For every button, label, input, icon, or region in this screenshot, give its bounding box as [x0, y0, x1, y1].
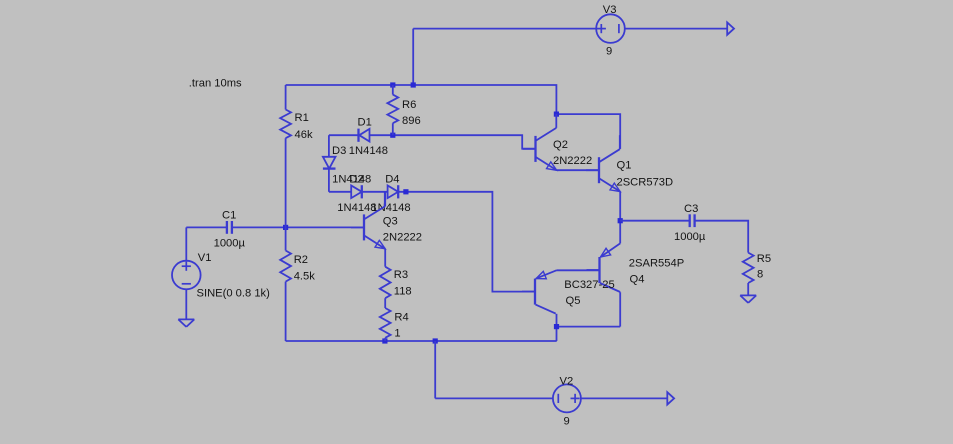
label R2 value 4.5k — [294, 271, 316, 283]
label C3 name — [684, 203, 698, 215]
svg-text:9: 9 — [606, 46, 612, 58]
label D3 name — [332, 145, 346, 157]
svg-text:1000µ: 1000µ — [214, 238, 246, 250]
svg-text:9: 9 — [564, 416, 570, 428]
svg-text:2N2222: 2N2222 — [553, 155, 592, 167]
svg-text:D4: D4 — [385, 173, 399, 185]
wire D1 node down to D3 — [328, 135, 330, 157]
svg-text:2SCR573D: 2SCR573D — [617, 177, 674, 189]
svg-text:C1: C1 — [222, 210, 236, 222]
svg-text:D1: D1 — [358, 117, 372, 129]
label V1 name — [198, 252, 212, 264]
label R6 value 896 — [402, 115, 421, 127]
resistor R6 — [387, 95, 398, 124]
wire Q4 collector stub — [619, 292, 621, 326]
wire left column R1-R2 middle — [285, 138, 287, 250]
wire V3 left segment — [413, 28, 596, 30]
wire R6 top lead — [392, 85, 394, 95]
label V3 value 9 — [606, 46, 612, 58]
label D2 value 1N4148 — [337, 202, 376, 214]
wire bottom rail — [286, 340, 557, 342]
wire V2 right segment — [581, 397, 667, 399]
label R3 name — [394, 269, 408, 281]
svg-text:Q1: Q1 — [617, 160, 632, 172]
svg-text:D2: D2 — [349, 173, 363, 185]
label Q5 name — [566, 295, 581, 307]
svg-text:BC327-25: BC327-25 — [564, 279, 614, 291]
wire Q3 emitter to R3 — [384, 249, 386, 267]
voltage source V1 — [172, 261, 201, 290]
resistor R4 — [380, 308, 391, 338]
svg-text:1000µ: 1000µ — [674, 231, 706, 243]
svg-text:R3: R3 — [394, 269, 408, 281]
junction D4 output node — [403, 189, 408, 194]
label R1 name — [295, 112, 309, 124]
svg-text:R1: R1 — [295, 112, 309, 124]
label V2 name — [560, 376, 574, 388]
svg-text:1N4148: 1N4148 — [349, 145, 388, 157]
label D1 value 1N4148 — [349, 145, 388, 157]
wire D4 to Q5 base — [398, 192, 535, 292]
port flag V2 output arrow — [667, 392, 674, 404]
label R3 value 118 — [394, 286, 412, 298]
svg-text:4.5k: 4.5k — [294, 271, 316, 283]
wire C1 to Q3 base — [232, 226, 364, 228]
svg-text:.tran 10ms: .tran 10ms — [189, 78, 242, 90]
svg-text:R5: R5 — [757, 253, 771, 265]
wire Q5 collector stub — [556, 314, 558, 327]
svg-text:V3: V3 — [603, 4, 617, 16]
capacitor C1 — [227, 221, 232, 234]
junction top rail / V3 branch — [411, 82, 416, 87]
junction V2 branch — [433, 338, 438, 343]
label R5 value 8 — [757, 269, 763, 281]
ground below R5 — [740, 295, 756, 303]
wire output node to C3 — [620, 220, 690, 222]
wire V2 branch down — [434, 341, 436, 398]
wire Q2 collector to Q1 collector — [556, 114, 620, 149]
svg-text:896: 896 — [402, 115, 421, 127]
label Q2 value 2N2222 — [553, 155, 592, 167]
label D4 value 1N4148 — [371, 202, 410, 214]
svg-text:Q5: Q5 — [566, 295, 581, 307]
voltage source V2 — [553, 384, 581, 412]
diode D4 — [388, 185, 399, 198]
wire V3 branch vertical — [412, 29, 414, 85]
wire V1 top lead — [185, 227, 187, 260]
voltage source V3 — [596, 14, 625, 43]
label C3 value 1000u — [674, 231, 706, 243]
svg-text:R4: R4 — [394, 311, 408, 323]
svg-text:Q3: Q3 — [383, 216, 398, 228]
wire R3 to R4 — [384, 298, 386, 308]
transistor Q1 npn — [586, 135, 620, 191]
port flag V3 output arrow — [727, 22, 734, 34]
label C1 name — [222, 210, 236, 222]
label R4 name — [394, 311, 408, 323]
wire V1 bottom lead — [185, 289, 187, 319]
wire D2 row left — [329, 191, 351, 193]
capacitor C3 — [690, 214, 695, 227]
label Q3 value 2N2222 — [383, 232, 422, 244]
label D4 name — [385, 173, 399, 185]
label Q3 name — [383, 216, 398, 228]
svg-text:Q2: Q2 — [553, 139, 568, 151]
svg-text:C3: C3 — [684, 203, 698, 215]
label R5 name — [757, 253, 771, 265]
wire V2 left segment — [435, 397, 553, 399]
svg-text:SINE(0 0.8 1k): SINE(0 0.8 1k) — [197, 288, 271, 300]
diode D3 — [323, 157, 336, 169]
wire C1 input row — [186, 226, 227, 228]
wire Q5 emitter to Q4 base — [557, 269, 600, 271]
wire Q4 emitter stub — [619, 221, 621, 244]
svg-text:2N2222: 2N2222 — [383, 232, 422, 244]
wire Q3 collector stub — [384, 192, 386, 207]
label Q1 name — [617, 160, 632, 172]
label spice directive .tran — [189, 78, 242, 90]
svg-text:2SAR554P: 2SAR554P — [629, 258, 684, 270]
label Q4 value 2SAR554P — [629, 258, 684, 270]
transistor Q3 npn — [351, 192, 385, 248]
wire Q2 emitter to Q1 base — [557, 169, 599, 171]
junction Q2 collector node — [554, 112, 559, 117]
svg-text:1N4148: 1N4148 — [371, 202, 410, 214]
wire left column R1 top lead — [285, 85, 287, 110]
resistor R1 — [280, 110, 291, 139]
ground below V1 — [178, 319, 194, 327]
svg-text:118: 118 — [394, 286, 412, 298]
wire R5 bottom lead — [747, 283, 749, 295]
label D2 name — [349, 173, 363, 185]
label Q2 name — [553, 139, 568, 151]
label R1 value 46k — [295, 129, 313, 141]
wire left column R2 bottom lead — [285, 282, 287, 341]
resistor R5 — [743, 253, 754, 283]
diode D2 — [351, 185, 362, 198]
svg-text:8: 8 — [757, 269, 763, 281]
svg-text:V1: V1 — [198, 252, 212, 264]
wire D1 anode row to Q2 base — [369, 135, 535, 149]
svg-text:46k: 46k — [295, 129, 313, 141]
svg-text:R2: R2 — [294, 254, 308, 266]
wire Q1 emitter stub — [619, 191, 621, 220]
label V3 name — [603, 4, 617, 16]
diode D1 — [359, 129, 370, 142]
svg-text:R6: R6 — [402, 99, 416, 111]
svg-text:V2: V2 — [560, 376, 574, 388]
svg-text:1: 1 — [394, 328, 400, 340]
junction R6 bottom / D1 row — [390, 133, 395, 138]
label V1 value SINE — [197, 288, 271, 300]
transistor Q5 pnp — [522, 270, 557, 313]
wire D1 cathode left segment — [329, 134, 359, 136]
wire D3 cathode down to D2 row — [328, 169, 330, 192]
label Q1 value 2SCR573D — [617, 177, 674, 189]
wire top rail from R1 to Q2 collector — [286, 85, 557, 114]
wire collector node down to bottom rail — [556, 327, 558, 341]
label R6 name — [402, 99, 416, 111]
label D3 value 1N4148 — [332, 173, 371, 185]
label V2 value 9 — [564, 416, 570, 428]
wire R4 bottom lead — [384, 338, 386, 341]
transistor Q4 pnp — [587, 243, 621, 292]
svg-text:D3: D3 — [332, 145, 346, 157]
wire C3 to R5 — [695, 221, 749, 253]
wire V3 right segment — [625, 28, 728, 30]
resistor R2 — [280, 251, 291, 282]
junction R4 bottom — [382, 338, 387, 343]
resistor R3 — [380, 267, 391, 299]
label Q4 name — [630, 274, 645, 286]
label Q5 value BC327-25 — [564, 279, 614, 291]
wire Q5/Q4 collector join — [557, 326, 621, 328]
svg-text:Q4: Q4 — [630, 274, 645, 286]
junction C1 / R1 / R2 node — [283, 225, 288, 230]
wire R6 bottom lead — [392, 123, 394, 135]
junction Q5/Q4 collector node — [554, 324, 559, 329]
label R2 name — [294, 254, 308, 266]
junction top rail / R6 — [390, 82, 395, 87]
transistor Q2 npn — [523, 114, 557, 170]
label R4 value 1 — [394, 328, 400, 340]
wire D2 to D4 — [362, 191, 388, 193]
junction output node — [618, 218, 623, 223]
label C1 value 1000u — [214, 238, 246, 250]
label D1 name — [358, 117, 372, 129]
